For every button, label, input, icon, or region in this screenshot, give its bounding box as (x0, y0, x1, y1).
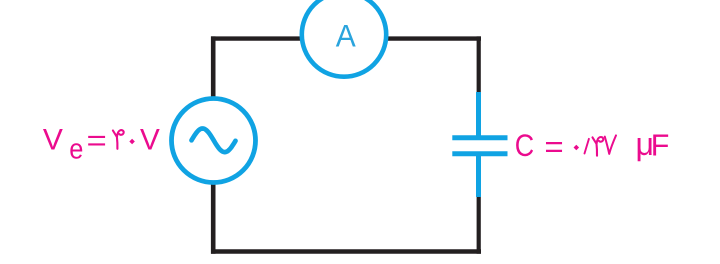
svg-text:e: e (69, 134, 83, 166)
wire: top (211, 36, 481, 40)
label C: Persian digit 7 (605, 135, 616, 153)
AC source sine wave (192, 129, 236, 153)
capacitor C1 top lead (476, 92, 481, 136)
svg-text:F: F (651, 129, 670, 163)
svg-text:C: C (515, 128, 534, 163)
wire: bottom (211, 249, 481, 254)
wire: right top segment (477, 36, 481, 94)
capacitor C1 bottom lead (476, 156, 481, 197)
svg-text:=: = (87, 124, 107, 157)
capacitor C1 top plate (452, 135, 507, 140)
AC source V1 circle (172, 99, 256, 183)
label Ve: Persian zero dot (129, 139, 135, 145)
svg-text:V: V (43, 123, 63, 156)
ammeter A1 circle (302, 0, 386, 77)
svg-text:=: = (544, 130, 563, 164)
label C: decimal slash (585, 139, 589, 154)
svg-text:A: A (336, 18, 357, 54)
label C: Persian digit 4 (593, 137, 604, 156)
wire: right bottom segment (477, 195, 481, 254)
capacitor C1 bottom plate (452, 151, 507, 156)
wire: left (211, 36, 216, 253)
svg-text:V: V (140, 123, 160, 156)
label Ve: Persian digit 4 (113, 130, 124, 149)
label C: Persian zero dot (574, 145, 580, 151)
